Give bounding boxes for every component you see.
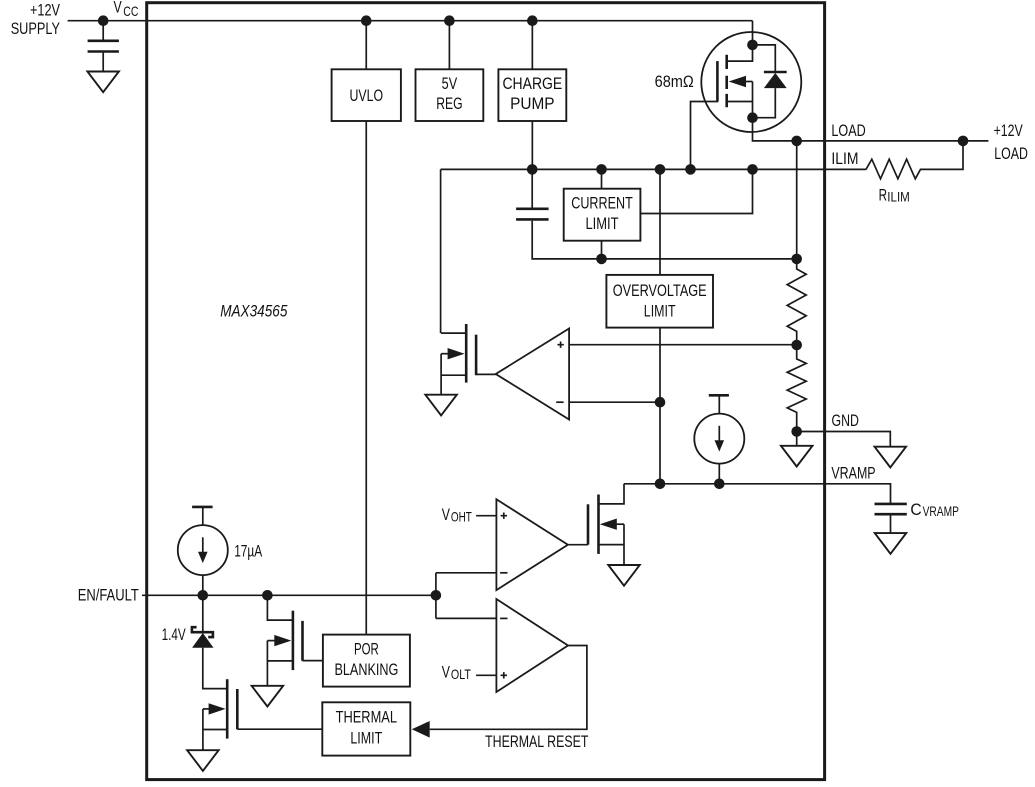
- current source I1 circle: [694, 414, 744, 464]
- transistor Q5 gate wire: [303, 660, 323, 662]
- svg-text:POR: POR: [354, 639, 379, 658]
- wire Q1 load line: [753, 118, 989, 141]
- wire EN/FAULT: [142, 594, 436, 596]
- wire Q2 to ground: [440, 354, 442, 395]
- block THERMAL LIMIT: [322, 702, 410, 755]
- transistor Q1 power MOSFET circle: [701, 32, 801, 132]
- wire VRAMP rail: [624, 484, 891, 503]
- svg-text:GND: GND: [832, 411, 859, 430]
- op-amp U2 VOHT comparator: [496, 499, 568, 590]
- block 5V REG: [416, 69, 484, 121]
- zener D1 cathode bar: [192, 627, 213, 637]
- ground Q5: [252, 686, 284, 707]
- svg-text:THERMAL RESET: THERMAL RESET: [485, 732, 588, 751]
- U2 plus sign: [501, 513, 507, 519]
- svg-text:CURRENT: CURRENT: [571, 193, 633, 212]
- svg-text:LOAD: LOAD: [831, 121, 865, 140]
- IC boundary box MAX34565: [147, 3, 825, 780]
- U1 minus sign: [556, 401, 563, 403]
- svg-text:5V: 5V: [442, 74, 458, 93]
- wire comparator minus to ov rail: [569, 401, 660, 403]
- wire VOHT minus input: [436, 572, 497, 574]
- wire CURRENT LIMIT right sense: [640, 169, 752, 213]
- wire gate rail corner to Q2: [440, 169, 442, 333]
- svg-text:C: C: [910, 500, 921, 519]
- block CURRENT LIMIT: [564, 189, 641, 241]
- transistor Q4 source wire: [599, 544, 625, 546]
- svg-text:ILIM: ILIM: [887, 189, 910, 205]
- svg-text:OLT: OLT: [451, 666, 471, 682]
- svg-text:THERMAL: THERMAL: [336, 708, 397, 727]
- transistor Q3 channel: [226, 679, 229, 738]
- wire CURRENT LIMIT top: [601, 169, 603, 188]
- svg-text:+12V: +12V: [30, 1, 60, 20]
- transistor Q5 drain wire: [267, 595, 293, 620]
- transistor Q2 drain wire: [441, 374, 466, 376]
- Q1 body diode cathode bar: [764, 71, 787, 74]
- transistor Q3 gate bar: [236, 689, 239, 729]
- svg-text:SUPPLY: SUPPLY: [11, 19, 60, 38]
- transistor Q4 gate bar: [587, 504, 590, 544]
- svg-text:REG: REG: [436, 94, 462, 113]
- wire EN to zener: [202, 595, 204, 632]
- svg-text:1.4V: 1.4V: [162, 625, 187, 644]
- transistor Q3 body arrow: [203, 708, 211, 710]
- op-amp U3 VOLT comparator: [496, 599, 568, 692]
- resistor RILIM: [866, 141, 963, 179]
- wire C2 to ground: [890, 516, 892, 534]
- ground Q3: [187, 750, 219, 771]
- transistor Q2 gate bar: [475, 335, 478, 376]
- svg-text:OHT: OHT: [451, 509, 472, 525]
- op-amp U1 overvoltage comparator: [496, 329, 569, 420]
- wire C1 bottom rail: [532, 221, 797, 259]
- wire VOLT minus input: [436, 617, 497, 619]
- wire 5V REG stub: [448, 21, 450, 70]
- wire load to divider: [796, 141, 798, 259]
- Q1 gate bar: [716, 61, 719, 101]
- svg-text:MAX34565: MAX34565: [220, 301, 288, 320]
- Q1 body arrow: [752, 82, 754, 102]
- svg-text:V: V: [442, 505, 451, 524]
- current source I1 arrow: [718, 426, 720, 442]
- svg-text:LIMIT: LIMIT: [644, 301, 676, 320]
- block CHARGE PUMP: [498, 69, 566, 121]
- transistor Q2 body arrow: [441, 353, 450, 355]
- ground Q2: [425, 395, 457, 416]
- transistor Q2 gate wire: [476, 373, 496, 375]
- block POR BLANKING: [323, 635, 410, 687]
- current source I2 circle: [178, 525, 228, 575]
- svg-text:+12V: +12V: [994, 121, 1024, 140]
- wire I2 bottom stub: [202, 575, 204, 595]
- wire I2 top stub: [202, 507, 204, 525]
- Q1 body diode wires: [753, 45, 776, 118]
- wire I1 top stub: [718, 395, 720, 413]
- wire comparator plus to divider: [569, 344, 797, 346]
- transistor Q4 body arrow: [615, 523, 624, 525]
- wire U3 output thermal reset: [430, 646, 587, 730]
- transistor Q3 source wire: [203, 729, 227, 731]
- wire gate rail y169: [441, 168, 867, 170]
- ground C2: [875, 533, 907, 554]
- svg-text:VRAMP: VRAMP: [923, 503, 959, 519]
- zener D1 anode triangle: [192, 633, 213, 648]
- U1 plus sign: [557, 342, 563, 348]
- resistor R1 divider top: [787, 259, 806, 345]
- ground supply cap: [87, 72, 119, 93]
- wire Q5 to ground: [266, 641, 268, 686]
- svg-text:R: R: [879, 185, 887, 204]
- wire VOHT plus stub: [476, 515, 496, 517]
- U3 minus sign: [500, 617, 507, 619]
- wire C1 top: [531, 169, 533, 207]
- transistor Q3 gate wire: [237, 728, 322, 730]
- wire zener to Q3: [203, 648, 227, 689]
- wire charge pump to ILIM rail: [531, 121, 533, 169]
- wire GND out: [797, 432, 891, 447]
- wire VOLT plus stub: [476, 674, 496, 676]
- wire supply cap branch: [102, 21, 104, 40]
- transistor Q5 channel: [292, 611, 295, 670]
- wire U2 output to Q4 gate: [568, 544, 588, 546]
- wire VCC rail: [68, 20, 753, 22]
- ground Q4: [608, 565, 640, 586]
- svg-text:LIMIT: LIMIT: [585, 214, 618, 233]
- svg-text:68mΩ: 68mΩ: [655, 72, 694, 91]
- block OVERVOLTAGE LIMIT: [606, 275, 713, 328]
- Q1 channel dashed: [725, 55, 728, 107]
- block UVLO: [332, 69, 401, 121]
- ground divider: [781, 446, 813, 467]
- wire CURRENT LIMIT bottom: [601, 241, 603, 259]
- wire divider to ground: [796, 432, 798, 446]
- svg-text:LIMIT: LIMIT: [350, 728, 382, 747]
- svg-text:BLANKING: BLANKING: [334, 660, 398, 679]
- wire Q1 gate lead: [691, 100, 718, 170]
- wire UVLO to POR BLANKING: [365, 121, 367, 635]
- U3 plus sign: [501, 672, 507, 678]
- transistor Q2 channel: [465, 324, 468, 383]
- junction dots: [98, 15, 109, 26]
- svg-text:EN/FAULT: EN/FAULT: [78, 586, 139, 605]
- U2 minus sign: [500, 572, 507, 574]
- svg-text:LOAD: LOAD: [994, 144, 1028, 163]
- wire VCC to Q1 drain: [752, 21, 754, 45]
- svg-text:ILIM: ILIM: [831, 149, 858, 168]
- transistor Q5 source wire: [267, 660, 293, 662]
- svg-text:UVLO: UVLO: [349, 86, 383, 105]
- svg-text:PUMP: PUMP: [510, 94, 554, 113]
- wire Q3 to ground: [202, 709, 204, 750]
- ground GND pin: [875, 447, 907, 468]
- wire EN branch vertical: [435, 573, 437, 619]
- arrowhead into THERMAL LIMIT: [412, 721, 430, 738]
- Q1 drain wire: [727, 45, 753, 61]
- wire OVERVOLTAGE top: [659, 169, 661, 275]
- transistor Q5 body arrow: [267, 640, 276, 642]
- transistor Q4 channel: [597, 495, 600, 554]
- svg-text:17µA: 17µA: [234, 541, 262, 560]
- wire UVLO stub: [365, 21, 367, 70]
- transistor Q4 drain wire: [599, 484, 625, 504]
- capacitor C2 VRAMP: [875, 504, 907, 514]
- wire cap to ground: [102, 53, 104, 72]
- svg-text:OVERVOLTAGE: OVERVOLTAGE: [613, 281, 707, 300]
- svg-text:V: V: [442, 662, 451, 681]
- wire I1 bottom stub: [718, 464, 720, 484]
- transistor Q2 source wire: [441, 332, 466, 334]
- current source I1 T-bar: [709, 394, 729, 397]
- resistor R2 divider bottom: [787, 345, 806, 432]
- svg-text:CHARGE: CHARGE: [502, 74, 562, 93]
- svg-text:VRAMP: VRAMP: [831, 463, 875, 482]
- wire OVERVOLTAGE bottom to VRAMP: [659, 328, 661, 484]
- Q1 body diode triangle: [764, 73, 787, 88]
- svg-text:V: V: [114, 0, 123, 17]
- current source I2 arrow: [202, 537, 204, 553]
- svg-text:CC: CC: [123, 3, 138, 19]
- current source I2 T-bar: [192, 506, 213, 509]
- wire CHARGE PUMP stub: [531, 21, 533, 70]
- transistor Q5 gate bar: [301, 621, 304, 661]
- Q1 source wire: [727, 102, 753, 118]
- capacitor C3 supply bypass: [88, 41, 119, 52]
- capacitor C1: [516, 209, 549, 220]
- wire Q4 to ground: [623, 524, 625, 565]
